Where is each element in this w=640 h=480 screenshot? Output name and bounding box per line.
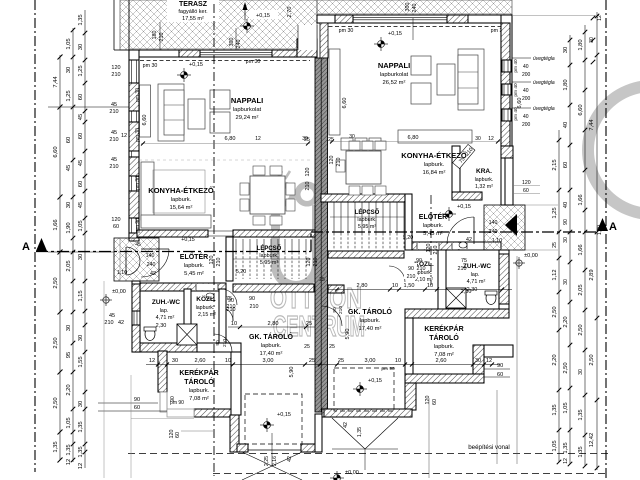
east wall pier lower (501, 121, 510, 146)
svg-text:2,30: 2,30 (461, 289, 472, 295)
driveway X left (242, 452, 302, 480)
party wall dark body (315, 58, 328, 412)
svg-text:1,05: 1,05 (563, 402, 569, 413)
west wall window 5 (120/60) (129, 218, 139, 233)
stairs north wall left unit (233, 230, 315, 237)
svg-text:40: 40 (523, 64, 529, 70)
svg-text:1,05: 1,05 (552, 440, 558, 451)
svg-text:210: 210 (111, 72, 120, 78)
terrace label (167, 0, 219, 22)
svg-text:210: 210 (250, 304, 259, 310)
svg-text:5,95 m²: 5,95 m² (358, 224, 376, 230)
east wall glass block window 2 (502, 84, 511, 95)
svg-text:12: 12 (66, 459, 72, 465)
svg-text:42: 42 (466, 237, 472, 243)
svg-text:30: 30 (349, 134, 355, 140)
svg-text:1,35: 1,35 (578, 446, 584, 457)
room label GK TAROLO right (348, 307, 392, 332)
svg-text:+0,15: +0,15 (277, 412, 291, 418)
KRA south wall (452, 192, 482, 200)
door gap zuh right (452, 243, 467, 249)
right chain top ticks diag (591, 16, 596, 21)
party wall upper hatched part (320, 23, 328, 58)
svg-text:LÉPCSŐ: LÉPCSŐ (355, 208, 380, 216)
svg-text:1,66: 1,66 (53, 219, 59, 230)
west wall window 2 (45/210) (129, 111, 139, 122)
svg-text:pm 30: pm 30 (135, 176, 141, 190)
svg-text:lapburk.: lapburk. (171, 197, 192, 203)
entry door arc left (126, 247, 140, 275)
svg-text:45: 45 (66, 165, 72, 171)
svg-text:12: 12 (486, 358, 492, 364)
svg-text:25: 25 (338, 358, 344, 364)
stairs west wall left unit (226, 237, 233, 281)
svg-text:210: 210 (313, 258, 319, 267)
svg-text:A: A (22, 241, 30, 253)
svg-text:lap.: lap. (471, 272, 480, 278)
east wall jog at KRA (501, 146, 513, 158)
gk south wall pier right (301, 444, 321, 452)
svg-text:lapburk.: lapburk. (196, 305, 215, 311)
svg-text:1,79: 1,79 (597, 225, 603, 235)
svg-text:2,30: 2,30 (156, 323, 167, 329)
svg-text:17,55 m²: 17,55 m² (182, 16, 204, 22)
svg-text:2,25: 2,25 (264, 456, 270, 466)
dim 90 60 left side kerekpar left (134, 397, 140, 411)
svg-text:210: 210 (109, 164, 118, 170)
svg-text:42: 42 (150, 271, 156, 277)
watermark text OTTHON CENTRUM (270, 283, 365, 343)
west wall lower left unit (132, 281, 140, 352)
svg-text:2,60: 2,60 (436, 358, 447, 364)
east wall pier top (501, 23, 510, 60)
svg-text:1,35: 1,35 (78, 421, 84, 432)
wall ZUH-KOZL left unit (184, 289, 191, 343)
svg-text:GK. TÁROLÓ: GK. TÁROLÓ (348, 307, 392, 316)
door gap gk right (406, 262, 412, 282)
east wall below porch right unit (499, 250, 509, 309)
dining table left unit (250, 176, 285, 214)
svg-text:beépítési vonal: beépítési vonal (468, 444, 510, 451)
room label ZUHWC right (463, 263, 491, 293)
kerekpar south wall left unit (194, 409, 231, 417)
level +0,15 terrace (249, 10, 278, 19)
top wall east hatch piece (297, 39, 317, 57)
section line A-A (36, 251, 311, 253)
watermark OC monogram center (271, 182, 321, 291)
svg-text:2,15 m²: 2,15 m² (198, 312, 216, 318)
svg-text:30: 30 (66, 67, 72, 73)
svg-text:1,66: 1,66 (578, 194, 584, 205)
svg-text:KERÉKPÁR: KERÉKPÁR (424, 324, 463, 333)
west wall kerekpar left unit (158, 351, 167, 392)
room label KRA right (475, 168, 494, 190)
svg-text:lapburk.: lapburk. (423, 223, 444, 229)
svg-text:2,50: 2,50 (53, 277, 59, 288)
floor extent rect kitchen left (153, 170, 205, 213)
svg-text:200: 200 (522, 122, 531, 128)
svg-text:16,84 m²: 16,84 m² (423, 170, 446, 176)
svg-text:40: 40 (523, 114, 529, 120)
svg-text:25: 25 (329, 344, 335, 350)
svg-text:2,20: 2,20 (563, 316, 569, 327)
driveway V right (332, 418, 365, 449)
parking dashed rect left unit (245, 394, 302, 444)
washbasin right unit (459, 242, 467, 248)
bottom wall right of party wall (322, 409, 337, 417)
svg-text:45: 45 (78, 114, 84, 120)
svg-text:TÁROLÓ: TÁROLÓ (429, 333, 459, 342)
svg-text:240: 240 (412, 4, 418, 13)
svg-text:1,25: 1,25 (552, 207, 558, 218)
svg-text:75: 75 (461, 258, 467, 264)
svg-text:29,24 m²: 29,24 m² (236, 115, 259, 121)
room label KONYHA right (401, 151, 467, 176)
svg-text:10: 10 (225, 358, 231, 364)
svg-text:17,40 m²: 17,40 m² (260, 351, 283, 357)
stairs label left unit (257, 244, 282, 266)
svg-text:pm 30: pm 30 (246, 59, 261, 65)
svg-text:42: 42 (118, 320, 124, 326)
kerekpar east wall right unit (473, 345, 484, 374)
right chain ticks (557, 138, 562, 143)
svg-text:40: 40 (523, 88, 529, 94)
svg-text:12: 12 (488, 136, 494, 142)
left chain extension lines (48, 106, 129, 108)
left dimension chain lines (59, 55, 61, 460)
svg-text:40: 40 (563, 122, 569, 128)
svg-text:45: 45 (111, 157, 117, 163)
svg-text:1,35: 1,35 (78, 14, 84, 25)
svg-text:2,80: 2,80 (268, 321, 279, 327)
svg-text:1,35: 1,35 (552, 404, 558, 415)
glazing lines top wall left unit (200, 51, 272, 53)
svg-text:ZUH.-WC: ZUH.-WC (463, 263, 491, 270)
left unit inner face lines (138, 57, 140, 233)
right top wall pier 1 (335, 15, 353, 23)
door size labels right kozl (416, 258, 467, 272)
terrace door landing white (298, 25, 317, 50)
west wall corner pier (129, 233, 139, 241)
svg-text:7,44: 7,44 (589, 119, 595, 131)
svg-text:1,25: 1,25 (78, 65, 84, 76)
thin edge below kerekpar wall (160, 392, 167, 412)
edge line above top wall right unit (317, 13, 512, 15)
toilet left unit (144, 327, 156, 341)
svg-text:90: 90 (249, 296, 255, 302)
svg-text:3,00: 3,00 (263, 358, 274, 364)
svg-text:26,52 m²: 26,52 m² (383, 80, 406, 86)
door threshold kitchen-eloter (208, 230, 233, 232)
kitchen counter left unit (141, 162, 154, 220)
svg-text:10: 10 (427, 283, 433, 289)
wall y345 jog right (484, 345, 513, 357)
window in lower west wall (133, 311, 135, 325)
svg-text:+0,15: +0,15 (388, 31, 402, 37)
svg-text:2,60: 2,60 (195, 358, 206, 364)
level target left porch (100, 294, 112, 306)
svg-text:üvegtégla: üvegtégla (533, 56, 555, 62)
gk south jog right unit (405, 383, 416, 410)
parking dashed rect right unit (334, 368, 394, 411)
room label KEREKPAR left (179, 368, 218, 402)
kitchen appliances right unit (341, 138, 353, 150)
west wall pier (129, 191, 139, 218)
svg-text:25: 25 (304, 344, 310, 350)
svg-text:210: 210 (222, 339, 228, 347)
svg-text:210: 210 (336, 158, 342, 167)
svg-text:12: 12 (78, 463, 84, 469)
left unit top wall (129, 50, 317, 57)
armchair right unit 2 (411, 83, 431, 104)
svg-text:210: 210 (458, 266, 467, 272)
glazing lines top wall right unit (353, 16, 447, 18)
room label ELOTER right (419, 212, 447, 237)
KRA door rotated label (453, 144, 475, 168)
svg-text:2,80: 2,80 (357, 283, 368, 289)
svg-text:pm 30: pm 30 (339, 28, 354, 34)
svg-text:30: 30 (78, 335, 84, 341)
svg-text:30: 30 (475, 136, 481, 142)
svg-text:45: 45 (135, 242, 141, 248)
door arc gk right (322, 306, 342, 326)
right top wall pier 2 (447, 15, 468, 23)
svg-text:2,89: 2,89 (589, 269, 595, 280)
svg-text:ELŐTÉR: ELŐTÉR (180, 252, 208, 261)
svg-text:45: 45 (109, 313, 115, 319)
svg-text:pm 40: pm 40 (513, 59, 519, 73)
kerekpar south wall right unit (405, 374, 484, 383)
svg-text:120: 120 (425, 396, 431, 405)
svg-text:30: 30 (66, 202, 72, 208)
svg-text:45: 45 (78, 160, 84, 166)
svg-text:5,90: 5,90 (289, 367, 295, 378)
svg-text:lapburk.: lapburk. (475, 177, 494, 183)
svg-text:ELŐTÉR: ELŐTÉR (419, 212, 447, 221)
svg-text:NAPPALI: NAPPALI (231, 96, 263, 105)
svg-text:60: 60 (78, 133, 84, 139)
svg-text:2,50: 2,50 (53, 337, 59, 348)
svg-text:2,15: 2,15 (552, 159, 558, 170)
svg-text:4,71 m²: 4,71 m² (156, 315, 175, 321)
svg-text:lapburk.: lapburk. (184, 263, 205, 269)
svg-text:120: 120 (306, 258, 312, 267)
svg-text:KONYHA-ÉTKEZŐ: KONYHA-ÉTKEZŐ (148, 186, 214, 195)
svg-text:25: 25 (319, 277, 325, 283)
east wall band right unit (501, 15, 512, 205)
svg-text:üvegtégla: üvegtégla (533, 80, 555, 86)
svg-text:LÉPCSŐ: LÉPCSŐ (257, 244, 282, 252)
room label ZUHWC left (152, 299, 180, 329)
level target right porch (513, 257, 525, 269)
svg-text:210: 210 (109, 109, 118, 115)
svg-text:210: 210 (216, 258, 222, 267)
svg-text:120: 120 (111, 65, 120, 71)
svg-text:lapburk.: lapburk. (424, 162, 445, 168)
svg-text:10: 10 (231, 321, 237, 327)
svg-text:140: 140 (489, 220, 498, 226)
svg-text:4,71 m²: 4,71 m² (467, 279, 486, 285)
svg-text:5,90: 5,90 (345, 329, 351, 340)
svg-text:30: 30 (563, 279, 569, 285)
svg-text:90: 90 (563, 219, 569, 225)
svg-text:5,45 m²: 5,45 m² (184, 271, 204, 277)
paving strip left of kerekpar wall (167, 409, 194, 417)
svg-text:lapburk.: lapburk. (357, 217, 376, 223)
svg-text:210: 210 (417, 266, 426, 272)
kitchen south wall left unit (137, 230, 208, 237)
gk-kerekpar wall right unit (405, 318, 413, 374)
svg-text:120: 120 (111, 217, 120, 223)
svg-text:210: 210 (338, 306, 344, 314)
room label NAPPALI left (231, 96, 263, 121)
svg-text:210: 210 (109, 137, 118, 143)
svg-text:180: 180 (152, 31, 158, 40)
svg-text:42: 42 (343, 422, 349, 428)
gk bottom wall right unit (324, 409, 412, 417)
uvegtegla leader lines (512, 57, 531, 59)
axis line right unit (430, 195, 432, 285)
svg-text:±0,00: ±0,00 (524, 253, 538, 259)
west wall window 4 (45/210) (129, 176, 139, 191)
porch labels right (466, 220, 502, 244)
svg-text:2,16: 2,16 (272, 456, 278, 466)
svg-text:1,05: 1,05 (66, 38, 72, 49)
svg-text:6,60: 6,60 (517, 98, 523, 109)
svg-text:2,50: 2,50 (53, 397, 59, 408)
door size labels left kozl (226, 296, 259, 310)
gk south wall pier left (237, 444, 248, 452)
wall KOZL-ZUHWC right unit (438, 250, 446, 309)
svg-text:210: 210 (227, 304, 236, 310)
svg-text:KONYHA-ÉTKEZŐ: KONYHA-ÉTKEZŐ (401, 151, 467, 160)
room label KONYHA left (148, 186, 214, 211)
sofa right unit (458, 49, 484, 110)
svg-text:1,55: 1,55 (78, 356, 84, 367)
svg-text:lapburk.: lapburk. (434, 344, 455, 350)
stairs south wall left unit (233, 284, 314, 292)
svg-text:1,10: 1,10 (117, 270, 127, 276)
svg-text:±0,00: ±0,00 (112, 289, 126, 295)
svg-text:lapburk.: lapburk. (259, 253, 278, 259)
svg-text:1,90: 1,90 (66, 222, 72, 233)
toilet right unit (485, 291, 497, 305)
west wall pier (129, 157, 139, 176)
KRA room west wall (452, 146, 460, 200)
svg-text:200: 200 (522, 96, 531, 102)
svg-text:60: 60 (432, 399, 438, 405)
svg-text:1,80: 1,80 (578, 39, 584, 50)
window size labels west side (104, 65, 127, 326)
section marker A right (597, 218, 608, 231)
svg-text:60: 60 (563, 162, 569, 168)
svg-text:6,60: 6,60 (342, 98, 348, 109)
property line right (605, 0, 607, 480)
svg-text:6,60: 6,60 (578, 104, 584, 115)
gk north wall stub right of party wall (328, 285, 344, 293)
svg-text:210: 210 (433, 246, 439, 255)
svg-text:KERÉKPÁR: KERÉKPÁR (179, 368, 218, 377)
svg-text:30: 30 (589, 37, 595, 43)
wall KOZL-GK left unit (219, 289, 226, 343)
stairs treads right unit (330, 202, 404, 250)
svg-text:12: 12 (597, 15, 603, 21)
svg-text:6,80: 6,80 (408, 135, 419, 141)
west wall band left unit (129, 50, 139, 240)
svg-text:KÖZL.: KÖZL. (196, 294, 216, 303)
svg-text:30: 30 (78, 254, 84, 260)
south wall ZUH/KOZL left unit (134, 343, 197, 352)
svg-text:10: 10 (395, 358, 401, 364)
tv cabinet left unit (140, 85, 151, 137)
right dimension chain lines (558, 130, 560, 462)
svg-text:90: 90 (215, 340, 221, 346)
entry porch left crosshatch (114, 238, 159, 281)
parapet dashed line left unit (140, 60, 310, 62)
svg-text:210: 210 (407, 274, 416, 280)
entry door arc right (447, 217, 474, 244)
stairs label right unit (355, 208, 380, 230)
svg-text:60: 60 (113, 224, 119, 230)
svg-text:1,05: 1,05 (78, 220, 84, 231)
dim 120 60 right of KRA (522, 180, 531, 194)
svg-text:lapburk.: lapburk. (360, 318, 381, 324)
svg-text:12: 12 (255, 136, 261, 142)
svg-text:240: 240 (236, 40, 242, 49)
svg-text:95: 95 (66, 352, 72, 358)
svg-text:2,50: 2,50 (589, 354, 595, 365)
svg-text:90: 90 (332, 307, 338, 313)
svg-text:90: 90 (408, 266, 414, 272)
porch labels left (117, 253, 156, 277)
svg-text:210: 210 (305, 182, 311, 191)
west wall window 3 (129, 151, 139, 157)
svg-text:42: 42 (287, 456, 293, 462)
porch inner lines (119, 238, 121, 281)
svg-text:pm 90: pm 90 (381, 366, 395, 372)
svg-text:75: 75 (226, 296, 232, 302)
svg-text:lapburk.: lapburk. (261, 343, 282, 349)
svg-text:15,64 m²: 15,64 m² (170, 205, 193, 211)
svg-text:30: 30 (563, 47, 569, 53)
svg-text:2,20: 2,20 (552, 354, 558, 365)
right chain rotated numbers (552, 15, 603, 464)
svg-text:300: 300 (405, 3, 411, 12)
svg-text:KRA.: KRA. (476, 168, 492, 175)
25 labels flanking party wall (304, 137, 335, 350)
svg-text:120: 120 (305, 168, 311, 177)
svg-text:5,20: 5,20 (403, 235, 413, 241)
svg-text:1,50: 1,50 (404, 283, 415, 289)
svg-text:2,50: 2,50 (578, 324, 584, 335)
svg-text:ZUH.-WC: ZUH.-WC (152, 299, 180, 306)
svg-text:1,35: 1,35 (53, 441, 59, 452)
top wall pier 2 (272, 50, 297, 57)
svg-text:2,05: 2,05 (66, 260, 72, 271)
kitchen counter right unit along party wall (329, 49, 340, 135)
edge line above top wall (129, 48, 317, 50)
kitchen dim line right unit (330, 141, 500, 143)
svg-text:+0,15: +0,15 (189, 62, 203, 68)
room label KOZL left (196, 294, 217, 318)
svg-text:1,32 m²: 1,32 m² (475, 184, 493, 190)
beepitesi vonal dashed line (128, 453, 608, 455)
room label NAPPALI right (378, 61, 410, 86)
interior dim row right y288 (328, 289, 512, 291)
svg-text:300: 300 (229, 38, 235, 47)
svg-text:12: 12 (563, 458, 569, 464)
door gap kozl left (196, 284, 218, 290)
